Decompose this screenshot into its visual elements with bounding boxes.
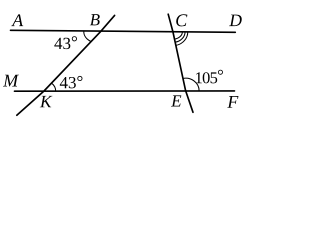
point label F — [227, 96, 238, 108]
angle value 43 deg at K — [60, 76, 83, 88]
transversal through C and E — [168, 14, 193, 112]
point label M — [3, 75, 19, 87]
angle arc at K (43°) — [51, 83, 55, 91]
point label D — [229, 15, 242, 27]
triple angle arc at C (middle) — [175, 32, 185, 43]
triple angle arc at C (inner) — [175, 32, 183, 39]
point label C — [176, 14, 187, 26]
line MF (bottom parallel line) — [15, 90, 235, 92]
angle value 43 deg at B — [54, 36, 77, 49]
transversal through B and K — [17, 15, 115, 115]
angle value 105 deg at E — [196, 70, 223, 84]
triple angle arc at C (outer) — [176, 32, 188, 46]
line AD (top parallel line) — [11, 30, 236, 32]
point label B — [90, 14, 100, 25]
point label A — [11, 14, 23, 26]
angle arc at E (105°) — [183, 78, 199, 91]
angle arc at B (43°) — [84, 31, 91, 41]
point label E — [171, 95, 181, 106]
point label K — [40, 96, 53, 107]
